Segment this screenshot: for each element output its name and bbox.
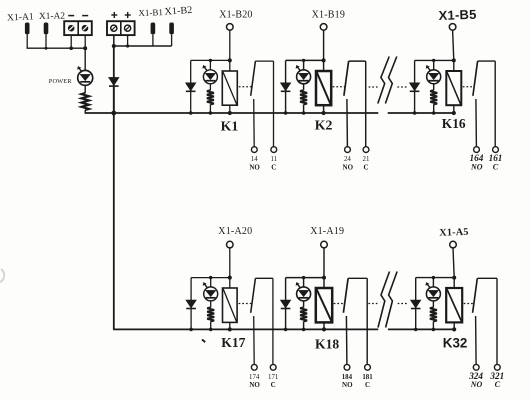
mechanical link K2 (dashed) bbox=[333, 86, 345, 88]
stray tick near K17 bbox=[202, 340, 205, 343]
diode D-K1 suppression bbox=[190, 60, 192, 82]
wire K32 cell top rail bbox=[416, 277, 455, 279]
contact K16 common top bar bbox=[478, 60, 496, 62]
svg-text:X1-B1: X1-B1 bbox=[138, 7, 163, 18]
wire X1-B19 feed down bbox=[323, 30, 325, 60]
screw terminal TB2-2 bbox=[125, 25, 131, 31]
wire minus rail down to POWER LED bbox=[84, 48, 86, 70]
svg-text:X1-B5: X1-B5 bbox=[438, 7, 476, 23]
wire K2 resistor to bus bbox=[303, 104, 305, 113]
LED K17 status bbox=[204, 287, 218, 301]
junction K32 top at LED bbox=[432, 276, 435, 279]
wire K17 LED to resistor bbox=[210, 301, 212, 308]
svg-text:NO: NO bbox=[249, 381, 260, 389]
svg-text:K1: K1 bbox=[221, 119, 239, 134]
junction K32 diode at bus bbox=[414, 328, 418, 332]
wire upper supply bus left segment bbox=[85, 112, 379, 114]
svg-text:K18: K18 bbox=[315, 337, 339, 352]
wire X1-A2 down bbox=[45, 34, 47, 48]
mechanical link K17 (dashed) bbox=[239, 303, 252, 305]
wire K2 common down bbox=[365, 61, 367, 147]
resistor R-K32 (coil) bbox=[430, 307, 437, 321]
wire K32 coil stub top bbox=[453, 278, 455, 288]
wire X1-B1 down bbox=[152, 34, 154, 46]
svg-text:C: C bbox=[271, 163, 276, 171]
wire K2 NO contact down bbox=[346, 99, 349, 147]
junction K1 top at LED bbox=[209, 59, 212, 62]
diode D-K18 suppression bbox=[285, 278, 287, 300]
wire plus rail horizontal bbox=[114, 45, 172, 47]
wire K1 coil stub bottom bbox=[229, 105, 231, 113]
svg-text:K2: K2 bbox=[315, 118, 333, 133]
svg-text:K16: K16 bbox=[442, 116, 466, 131]
junction K18 coil at bus bbox=[322, 327, 326, 331]
node X1-A19 feed circle bbox=[321, 241, 328, 248]
resistor R-K17 (coil) bbox=[207, 307, 214, 321]
wire TB1-1 down bbox=[70, 35, 72, 48]
wire K1 LED to resistor bbox=[209, 84, 211, 91]
contact K17 armature (NO) bbox=[251, 278, 256, 313]
node X1-B20 feed circle bbox=[227, 24, 234, 31]
svg-text:X1-B2: X1-B2 bbox=[164, 5, 192, 18]
junction K17 LED branch at bus bbox=[209, 328, 213, 332]
svg-text:171: 171 bbox=[268, 374, 279, 381]
junction K18 top at LED bbox=[302, 276, 305, 279]
relay coil K18 bbox=[316, 288, 332, 322]
svg-text:NO: NO bbox=[343, 163, 354, 171]
junction K16 top at LED bbox=[432, 59, 435, 62]
contact K1 armature (NO) bbox=[251, 61, 256, 96]
svg-text:24: 24 bbox=[344, 156, 351, 163]
wire K17 cell top rail bbox=[191, 277, 230, 279]
junction K32 top at relay bbox=[452, 276, 456, 280]
wire K2 LED to resistor bbox=[303, 84, 305, 91]
LED K1 status bbox=[203, 70, 217, 84]
wire X1-A20 feed down bbox=[229, 248, 231, 278]
svg-text:NO: NO bbox=[249, 163, 260, 171]
resistor R-K1 (coil) bbox=[207, 90, 214, 104]
terminal K2 NO circle bbox=[345, 147, 351, 153]
svg-text:X1-A19: X1-A19 bbox=[310, 226, 344, 237]
wire K18 cell top rail bbox=[286, 277, 324, 279]
junction K32 coil at bus bbox=[452, 327, 456, 331]
terminal K1 NO circle bbox=[251, 147, 257, 153]
junction K17 top at LED bbox=[209, 276, 212, 279]
wire K32 LED branch upper bbox=[432, 278, 434, 287]
diode D-K32 suppression bbox=[415, 278, 417, 300]
wire K32 NO contact down bbox=[475, 316, 478, 364]
wire K18 coil stub bottom bbox=[323, 322, 325, 329]
junction K32 LED branch at bus bbox=[432, 328, 436, 332]
contact K32 common top bar bbox=[477, 277, 497, 279]
svg-text:K32: K32 bbox=[443, 336, 468, 351]
wire K18 resistor to bus bbox=[303, 321, 305, 329]
junction K2 diode at bus bbox=[284, 111, 288, 115]
wire plus feed to lower bus bbox=[113, 86, 115, 330]
svg-text:181: 181 bbox=[362, 374, 373, 381]
junction feed x upper bus bbox=[111, 111, 116, 116]
wire K16 coil stub bottom bbox=[453, 105, 455, 113]
terminal pin X1-B2 bbox=[169, 23, 174, 35]
junction minus rail at X1-A2 bbox=[45, 47, 48, 50]
dashed link to lower break right bbox=[398, 303, 407, 305]
relay coil K1 bbox=[222, 71, 237, 105]
junction K1 coil at bus bbox=[228, 111, 232, 115]
svg-text:NO: NO bbox=[470, 380, 483, 389]
screw terminal TB2-1 bbox=[111, 25, 117, 31]
junction K18 diode at bus bbox=[284, 328, 288, 332]
wire K2 cell top rail bbox=[286, 59, 324, 61]
relay coil K2 bbox=[316, 71, 331, 105]
wire K18 LED branch upper bbox=[303, 278, 305, 287]
junction K16 LED branch at bus bbox=[432, 111, 436, 115]
contact K16 armature (NO) bbox=[473, 61, 478, 96]
minus sign 2 bbox=[82, 15, 88, 17]
terminal K18 C circle bbox=[365, 364, 371, 370]
wire X1-A19 feed down bbox=[323, 248, 325, 278]
junction K2 LED branch at bus bbox=[302, 111, 306, 115]
junction plus rail at TB2-2 bbox=[126, 44, 129, 47]
screw terminal TB1-2 bbox=[82, 25, 89, 32]
wire K18 common down bbox=[366, 278, 368, 364]
wire lower supply bus left segment bbox=[113, 328, 378, 330]
contact K18 common top bar bbox=[348, 277, 367, 279]
wire K17 LED branch upper bbox=[210, 278, 212, 287]
svg-text:X1-A20: X1-A20 bbox=[218, 226, 252, 237]
contact K2 common top bar bbox=[349, 60, 366, 62]
wire K16 cell top rail bbox=[415, 59, 454, 61]
svg-text:NO: NO bbox=[470, 162, 483, 171]
svg-text:C: C bbox=[493, 162, 499, 171]
LED K32 status bbox=[426, 287, 440, 301]
svg-text:174: 174 bbox=[249, 374, 260, 381]
wire K17 NO contact down bbox=[253, 316, 256, 364]
terminal K32 NO circle bbox=[473, 364, 479, 370]
wire resistor to bus corner bbox=[84, 110, 86, 113]
stray mark left edge bbox=[0, 269, 4, 282]
terminal K16 NO circle bbox=[474, 147, 480, 153]
svg-text:NO: NO bbox=[342, 381, 353, 389]
wire K16 resistor to bus bbox=[433, 104, 435, 113]
wire X1-A1 down bbox=[26, 34, 28, 48]
contact K32 armature (NO) bbox=[473, 278, 478, 313]
junction minus rail at TB1-1 bbox=[69, 46, 73, 50]
wire LED to resistor bbox=[84, 85, 86, 93]
wire K17 coil stub bottom bbox=[229, 322, 231, 329]
junction minus rail at TB1-2 bbox=[83, 46, 87, 50]
contact K1 common top bar bbox=[255, 60, 273, 62]
wire K32 coil stub bottom bbox=[453, 322, 455, 329]
terminal K1 C circle bbox=[271, 147, 277, 153]
plus sign 1 bbox=[111, 14, 117, 16]
wire K16 LED to resistor bbox=[433, 84, 435, 91]
wire K18 NO contact down bbox=[345, 316, 348, 364]
resistor R-K2 (coil) bbox=[300, 90, 307, 104]
svg-text:X1-A5: X1-A5 bbox=[439, 227, 469, 239]
wire X1-B5 feed down bbox=[453, 30, 454, 60]
terminal block TB2 (plus) bbox=[107, 21, 135, 35]
wire K17 coil stub top bbox=[229, 278, 231, 288]
wire K16 NO contact down bbox=[475, 99, 478, 147]
LED K18 status bbox=[297, 287, 311, 301]
svg-text:C: C bbox=[363, 163, 368, 171]
break mark lower (continuation) bbox=[378, 272, 390, 328]
resistor R-power (coil) bbox=[82, 93, 89, 110]
terminal K32 C circle bbox=[494, 364, 500, 370]
LED POWER indicator bbox=[78, 70, 93, 85]
wire K16 LED branch upper bbox=[433, 60, 435, 69]
wire K18 LED to resistor bbox=[303, 301, 305, 308]
wire K17 common down bbox=[272, 278, 274, 364]
contact K18 armature (NO) bbox=[343, 278, 348, 313]
terminal K18 NO circle bbox=[344, 364, 350, 370]
junction K2 top at LED bbox=[302, 59, 305, 62]
mechanical link K1 (dashed) bbox=[239, 86, 252, 88]
junction K17 diode at bus bbox=[189, 328, 193, 332]
wire K1 cell top rail bbox=[191, 59, 230, 61]
svg-text:X1-B19: X1-B19 bbox=[312, 9, 345, 20]
wire TB2-1 down bbox=[113, 35, 115, 46]
svg-text:POWER: POWER bbox=[49, 78, 73, 85]
resistor R-K18 (coil) bbox=[300, 307, 307, 321]
plus sign 2 bbox=[125, 14, 131, 16]
terminal pin X1-B1 bbox=[151, 23, 156, 35]
junction K17 coil at bus bbox=[228, 327, 232, 331]
junction K16 diode at bus bbox=[413, 111, 417, 115]
node X1-A20 feed circle bbox=[227, 241, 234, 248]
terminal K16 C circle bbox=[493, 147, 499, 153]
terminal K17 NO circle bbox=[251, 364, 257, 370]
node X1-A5 feed circle bbox=[450, 241, 457, 248]
wire K2 coil stub bottom bbox=[323, 105, 325, 113]
wire X1-B20 feed down bbox=[229, 30, 231, 60]
svg-text:C: C bbox=[271, 381, 276, 389]
wire K17 resistor to bus bbox=[210, 321, 212, 329]
diode D-K17 suppression bbox=[190, 278, 192, 300]
svg-text:X1-A1: X1-A1 bbox=[7, 11, 34, 23]
break mark upper (continuation) bbox=[378, 57, 389, 104]
wire K1 LED branch upper bbox=[209, 60, 211, 69]
relay coil K32 bbox=[446, 288, 462, 322]
junction K18 LED branch at bus bbox=[302, 328, 306, 332]
wire K1 resistor to bus bbox=[209, 104, 211, 113]
diode D-main series bbox=[113, 77, 115, 113]
terminal block TB1 (minus) bbox=[64, 21, 92, 35]
terminal K17 C circle bbox=[270, 364, 276, 370]
wire minus rail horizontal bbox=[27, 47, 86, 49]
terminal pin X1-A1 bbox=[25, 23, 30, 35]
terminal pin X1-A2 bbox=[44, 23, 49, 35]
wire K32 common down bbox=[496, 278, 498, 364]
junction K1 LED branch at bus bbox=[209, 111, 213, 115]
wire K16 coil stub top bbox=[453, 60, 455, 71]
LED K16 status bbox=[427, 70, 441, 84]
svg-text:21: 21 bbox=[363, 156, 370, 163]
wire K1 common down bbox=[273, 61, 275, 147]
junction plus rail corner bbox=[112, 44, 116, 48]
junction K2 coil at bus bbox=[322, 111, 326, 115]
wire K18 coil stub top bbox=[323, 278, 325, 288]
junction K1 diode at bus bbox=[189, 111, 193, 115]
junction K17 top at relay bbox=[228, 276, 232, 280]
mechanical link K32 (dashed) bbox=[464, 303, 474, 305]
diode D-K2 suppression bbox=[285, 60, 287, 82]
junction K16 coil at bus bbox=[452, 111, 456, 115]
screw terminal TB1-1 bbox=[68, 25, 75, 32]
svg-text:X1-A2: X1-A2 bbox=[39, 12, 66, 22]
minus sign 1 bbox=[68, 15, 74, 17]
relay coil K17 bbox=[223, 288, 238, 322]
junction K2 top at relay bbox=[322, 58, 326, 62]
dashed link to upper break left bbox=[369, 86, 378, 88]
mechanical link K18 (dashed) bbox=[334, 303, 345, 305]
contact K17 common top bar bbox=[255, 277, 273, 279]
svg-text:14: 14 bbox=[251, 156, 258, 163]
wire K32 resistor to bus bbox=[432, 321, 434, 329]
wire K2 LED branch upper bbox=[303, 60, 305, 69]
wire K1 coil stub top bbox=[229, 60, 231, 71]
resistor R-K16 (coil) bbox=[430, 90, 437, 104]
wire K2 coil stub top bbox=[323, 60, 325, 71]
LED K2 status bbox=[297, 70, 311, 84]
wire TB2-2 down bbox=[127, 35, 129, 46]
relay coil K16 bbox=[446, 71, 461, 105]
junction K1 top at relay bbox=[228, 58, 232, 62]
wire X1-A5 feed down bbox=[453, 248, 454, 278]
svg-text:X1-B20: X1-B20 bbox=[219, 9, 252, 20]
terminal K2 C circle bbox=[363, 147, 369, 153]
junction K18 top at relay bbox=[322, 276, 326, 280]
svg-text:C: C bbox=[365, 381, 370, 389]
wire X1-B2 down bbox=[171, 34, 173, 46]
wire K1 NO contact down bbox=[253, 99, 256, 147]
dashed link to lower break left bbox=[368, 303, 377, 305]
svg-text:11: 11 bbox=[270, 156, 277, 163]
diode D-K16 suppression bbox=[414, 60, 416, 82]
svg-text:C: C bbox=[495, 380, 501, 389]
wire upper supply bus right segment bbox=[388, 112, 454, 114]
dashed link to upper break right bbox=[397, 86, 406, 88]
wire K16 common down bbox=[494, 61, 496, 147]
node X1-B19 feed circle bbox=[320, 24, 327, 31]
contact K2 armature (NO) bbox=[344, 61, 349, 96]
wire plus feed down from TB2 bbox=[113, 46, 115, 77]
svg-text:K17: K17 bbox=[221, 335, 245, 350]
mechanical link K16 (dashed) bbox=[463, 86, 474, 88]
node X1-B5 feed circle bbox=[449, 24, 456, 31]
svg-text:184: 184 bbox=[342, 374, 353, 381]
junction K16 top at relay bbox=[452, 58, 456, 62]
wire TB1-2 down bbox=[84, 35, 86, 48]
wire lower supply bus right segment bbox=[388, 328, 454, 330]
wire K32 LED to resistor bbox=[432, 301, 434, 308]
